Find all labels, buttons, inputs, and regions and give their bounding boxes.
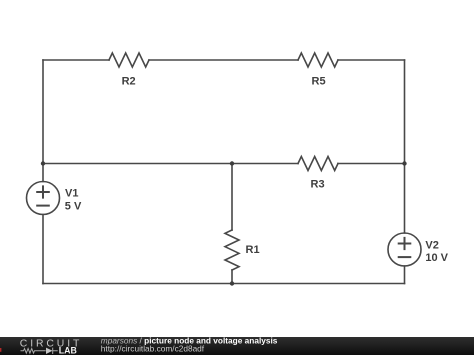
resistor R3 xyxy=(298,157,338,171)
svg-text:R1: R1 xyxy=(246,244,260,256)
wire bottom xyxy=(43,283,405,285)
V1 plus sign xyxy=(37,186,49,197)
wire center vertical upper xyxy=(231,164,233,231)
voltage source V1 xyxy=(27,182,60,215)
footer red accent xyxy=(0,348,1,352)
resistor R5 xyxy=(298,53,338,67)
svg-text:V1: V1 xyxy=(65,188,78,200)
V2 plus sign xyxy=(399,238,411,249)
wire left vertical lower xyxy=(42,215,44,284)
node junction center-bottom xyxy=(230,281,234,285)
node junction right-middle xyxy=(402,161,406,165)
logo diode triangle xyxy=(46,348,53,354)
svg-text:V2: V2 xyxy=(425,239,438,251)
wire top-left segment xyxy=(43,59,109,61)
svg-text:R5: R5 xyxy=(312,75,326,87)
svg-text:http://circuitlab.com/c2d8adf: http://circuitlab.com/c2d8adf xyxy=(101,344,205,354)
svg-text:LAB: LAB xyxy=(59,346,77,355)
svg-text:10 V: 10 V xyxy=(425,252,448,264)
resistor R1 xyxy=(225,230,239,270)
wire center vertical lower xyxy=(231,270,233,284)
voltage source V2 xyxy=(388,233,421,266)
logo resistor-diode line xyxy=(21,348,58,354)
footer bar xyxy=(0,337,474,355)
wire top-middle segment xyxy=(149,59,298,61)
node junction center-middle xyxy=(230,161,234,165)
wire top-right segment xyxy=(338,59,405,61)
wire middle horizontal right xyxy=(338,163,405,165)
wire right vertical upper xyxy=(404,60,406,233)
resistor R2 xyxy=(109,53,149,67)
wire right vertical lower xyxy=(404,266,406,284)
svg-text:5 V: 5 V xyxy=(65,201,82,213)
wire middle horizontal left xyxy=(43,163,298,165)
node junction left-middle xyxy=(41,161,45,165)
svg-text:R3: R3 xyxy=(311,179,325,191)
svg-text:R2: R2 xyxy=(122,75,136,87)
wire left vertical upper xyxy=(42,60,44,182)
V1 minus sign xyxy=(37,205,49,207)
V2 minus sign xyxy=(399,256,411,258)
